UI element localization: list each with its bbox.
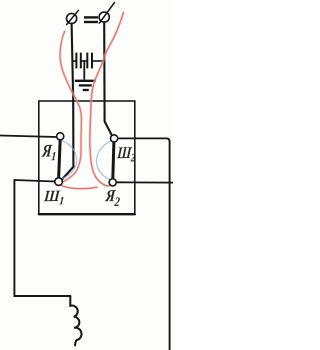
jumper link Ya1-Sh1 (left) — [59, 139, 61, 179]
wire ground lead from capacitor midpoint — [83, 61, 85, 79]
terminal box outline — [39, 101, 135, 214]
wire from terminal Ya2 off right edge — [116, 181, 173, 183]
inductor L1 (field coil) — [70, 296, 81, 345]
svg-text:Я1: Я1 — [40, 142, 57, 164]
terminal box bottom edge (heavier) — [39, 213, 135, 215]
capacitor C2 (right, plates) — [87, 53, 92, 69]
terminal Sh2 (circle) — [111, 135, 118, 142]
red annotation wire right (supply to Ya2) — [90, 13, 124, 186]
svg-text:Я2: Я2 — [104, 187, 122, 210]
ground symbol — [75, 81, 96, 90]
svg-text:Ш2: Ш2 — [115, 144, 136, 165]
wire from left edge to terminal Ya1 — [0, 136, 57, 138]
wire right riser down to bottom edge — [167, 138, 170, 350]
svg-text:Ш1: Ш1 — [42, 188, 65, 208]
terminal X1 (left supply clamp symbol) — [67, 10, 79, 24]
wire right supply lead down to terminal Sh2 — [104, 22, 112, 136]
blue arc (internal winding, right) — [97, 141, 111, 180]
DC sign (=) between supply terminals — [84, 17, 98, 22]
terminal Ya2 (circle) — [109, 179, 116, 186]
terminal Ya1 (circle) — [57, 133, 64, 140]
terminal Sh1 (circle) — [55, 178, 63, 186]
wire from terminal Sh1 to left riser — [14, 180, 55, 182]
wire left riser down — [14, 180, 70, 296]
jumper link Sh2-Ya2 (right) — [113, 141, 114, 180]
wire from terminal Sh2 to right riser — [118, 137, 167, 139]
wire capacitor bus (horizontal) — [73, 60, 105, 62]
wire left supply lead down to terminal Sh1 — [61, 24, 73, 181]
terminal X2 (right supply clamp symbol) — [99, 3, 114, 24]
blue arc (internal winding, left) — [62, 141, 77, 179]
capacitor C1 (left, plates) — [76, 53, 80, 69]
red annotation wire left (supply to Sh1) — [60, 32, 98, 189]
